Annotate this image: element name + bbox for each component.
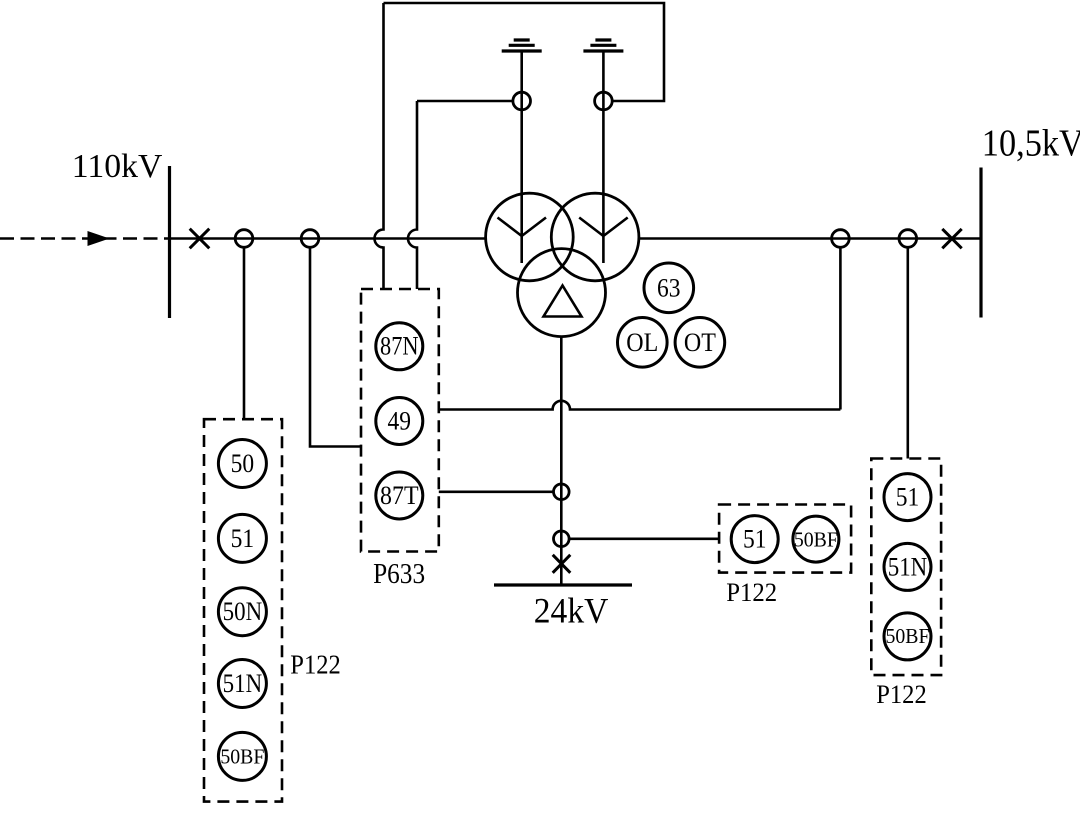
wire left bushing stem xyxy=(520,51,523,236)
wire vertical B with hop over main line xyxy=(408,101,417,289)
svg-text:OL: OL xyxy=(626,328,658,357)
svg-text:51N: 51N xyxy=(223,669,263,698)
wire 49-level with hop over delta stem xyxy=(439,401,841,410)
CT circle on delta stem lower xyxy=(554,531,570,547)
relay 49 xyxy=(376,398,423,445)
relay 50BF xyxy=(218,732,266,780)
relay box P122 small xyxy=(719,505,851,573)
wire 87T to delta stem CT xyxy=(439,490,554,493)
svg-text:50N: 50N xyxy=(223,597,263,626)
wire main HV line xyxy=(170,237,486,240)
wire CT 310 down then right to P633 xyxy=(310,247,361,446)
transformer T1 HV winding xyxy=(486,193,574,281)
svg-text:P633: P633 xyxy=(373,559,425,590)
wire horiz to left bushing CT xyxy=(417,100,513,103)
relay 51 xyxy=(218,514,266,562)
bushing CT circle left xyxy=(513,92,531,110)
arrowhead on feeder xyxy=(88,231,110,246)
wye symbol right winding xyxy=(579,218,628,264)
CT circle on delta stem upper xyxy=(554,484,570,500)
svg-text:10,5kV: 10,5kV xyxy=(982,123,1080,165)
CT circle at node 310 xyxy=(301,230,319,248)
relay 51 (24kV) xyxy=(731,516,778,563)
svg-text:51: 51 xyxy=(743,525,767,554)
wye symbol left winding xyxy=(498,218,547,264)
relay box P122 right tall xyxy=(871,459,941,676)
transformer T1 LV winding xyxy=(551,193,639,281)
svg-text:51: 51 xyxy=(231,524,255,553)
wire CT 908 down to right P122 xyxy=(906,247,909,458)
bus 110kV xyxy=(168,166,171,318)
bus 10,5kV xyxy=(979,168,982,318)
relay 87T xyxy=(376,472,423,519)
relay 51N (10kV) xyxy=(884,543,931,590)
wire CT 840 down xyxy=(839,247,842,409)
breaker X left xyxy=(190,229,210,249)
relay 50N xyxy=(218,588,266,636)
svg-text:OT: OT xyxy=(684,328,716,357)
svg-text:87T: 87T xyxy=(380,481,419,510)
relay 50BF (10kV) xyxy=(884,613,931,660)
svg-text:P122: P122 xyxy=(876,680,927,709)
wire delta stem CT to 51 relay box xyxy=(569,537,719,540)
CT circle at node 908 xyxy=(899,230,917,248)
bushing CT circle right xyxy=(595,92,613,110)
CT circle at node 840 xyxy=(832,230,850,248)
breaker X on delta stem xyxy=(553,555,571,573)
delta symbol tertiary winding xyxy=(544,286,582,317)
svg-text:49: 49 xyxy=(388,407,412,436)
wire right bushing stem xyxy=(602,51,605,236)
svg-text:63: 63 xyxy=(657,273,681,302)
CT circle at node 244 xyxy=(235,230,253,248)
relay 50 xyxy=(218,440,266,488)
svg-text:51: 51 xyxy=(896,483,920,512)
ground symbol right xyxy=(583,40,623,51)
svg-text:50BF: 50BF xyxy=(886,624,930,648)
svg-text:87N: 87N xyxy=(380,332,419,361)
wire CT 244 down to P122 box xyxy=(243,247,246,419)
svg-text:110kV: 110kV xyxy=(72,148,163,185)
ground symbol left xyxy=(502,40,542,51)
alarm 63 xyxy=(644,263,694,313)
relay 51N xyxy=(218,660,266,708)
svg-text:50BF: 50BF xyxy=(220,745,264,769)
breaker X right xyxy=(942,229,961,248)
svg-text:24kV: 24kV xyxy=(534,591,609,631)
wire incoming 110kV feeder (dashed) xyxy=(0,237,170,240)
wire main line right of transformer xyxy=(638,237,982,240)
svg-text:50: 50 xyxy=(231,449,255,478)
alarm OL xyxy=(618,318,668,368)
wire delta stem down to 24kV bus xyxy=(560,337,563,586)
relay box P122 left xyxy=(204,419,282,801)
svg-text:P122: P122 xyxy=(726,578,777,607)
svg-text:P122: P122 xyxy=(290,650,341,680)
relay box P633 xyxy=(361,289,439,552)
alarm OT xyxy=(675,318,725,368)
wire vertical A with hop over main line xyxy=(375,3,384,289)
svg-text:51N: 51N xyxy=(888,552,928,581)
transformer T1 tertiary winding xyxy=(518,249,606,337)
relay 51 (10kV) xyxy=(884,474,931,521)
relay 50BF (24kV) xyxy=(793,516,839,562)
bus 24kV xyxy=(494,583,632,586)
svg-text:50BF: 50BF xyxy=(794,527,838,551)
relay 87N xyxy=(376,323,423,370)
wire top loop xyxy=(384,3,665,101)
